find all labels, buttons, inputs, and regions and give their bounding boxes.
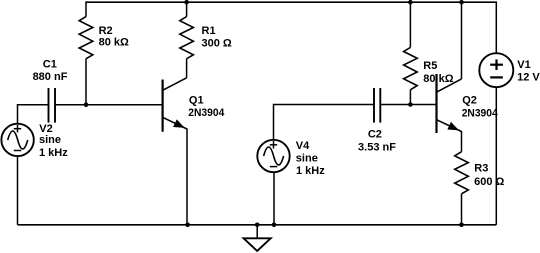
svg-text:V4: V4 <box>296 140 310 152</box>
node junction dot R1 top rail <box>184 0 189 5</box>
capacitor C1 <box>49 88 56 123</box>
wire V1 top lead <box>495 1 497 53</box>
voltage source V2 <box>1 124 33 156</box>
voltage source V1 <box>479 53 513 87</box>
svg-text:R5: R5 <box>423 60 437 72</box>
wire R2 top lead <box>85 1 87 16</box>
wire bottom rail <box>18 224 497 226</box>
node junction dot R2/base <box>84 102 89 107</box>
svg-text:600 Ω: 600 Ω <box>474 176 504 188</box>
wire Q2 collector lead <box>461 1 463 79</box>
wire Q1 emitter lead <box>186 129 188 225</box>
node junction dot R5/base <box>408 102 413 107</box>
svg-text:C1: C1 <box>43 59 57 71</box>
svg-text:3.53 nF: 3.53 nF <box>358 141 396 153</box>
resistor R2 <box>79 17 93 59</box>
svg-text:80 kΩ: 80 kΩ <box>99 37 129 49</box>
transistor Q2 <box>437 74 462 133</box>
wire C2 to Q2 base <box>380 104 436 106</box>
wire V2 bottom lead <box>17 156 19 225</box>
svg-text:300 Ω: 300 Ω <box>202 37 232 49</box>
svg-text:1 kHz: 1 kHz <box>296 165 325 177</box>
wire R1 bottom lead <box>186 59 188 78</box>
svg-text:2N3904: 2N3904 <box>462 107 499 119</box>
svg-text:12 V: 12 V <box>517 72 540 84</box>
wire R5 top lead <box>409 1 411 47</box>
svg-text:C2: C2 <box>368 129 382 141</box>
node junction dot ground <box>255 223 260 228</box>
wire R1 top lead <box>186 1 188 16</box>
transistor Q1 <box>163 78 187 132</box>
wire top rail <box>86 1 496 3</box>
svg-text:V1: V1 <box>517 59 530 71</box>
capacitor C2 <box>374 88 380 123</box>
wire R3 bottom lead <box>461 194 463 225</box>
node junction dot Q2 collector top rail <box>459 0 464 5</box>
node junction dot Q1 emitter bottom <box>185 223 190 228</box>
voltage source V4 <box>257 140 289 172</box>
resistor R1 <box>180 17 194 59</box>
wire C1 to Q1 base <box>55 104 163 106</box>
wire V1 bottom lead <box>495 87 497 225</box>
svg-text:80 kΩ: 80 kΩ <box>423 73 453 85</box>
svg-text:Q2: Q2 <box>462 95 477 107</box>
svg-text:R3: R3 <box>474 162 488 174</box>
ground <box>244 225 271 251</box>
wire R2 bottom lead <box>85 59 87 105</box>
wire Q2 emitter lead <box>461 131 463 152</box>
resistor R5 <box>404 47 418 89</box>
svg-text:R1: R1 <box>202 25 216 37</box>
wire V2 top to C1 <box>18 105 49 124</box>
svg-text:1 kHz: 1 kHz <box>39 147 68 159</box>
svg-text:Q1: Q1 <box>189 94 204 106</box>
wire V4 top to C2 <box>274 105 375 141</box>
svg-text:sine: sine <box>296 153 318 165</box>
svg-text:880 nF: 880 nF <box>33 71 68 83</box>
node junction dot R5 top rail <box>408 0 413 5</box>
svg-text:2N3904: 2N3904 <box>188 107 225 119</box>
wire V4 bottom lead <box>273 172 275 225</box>
wire R5 bottom lead <box>409 90 411 105</box>
node junction dot R3 bottom <box>459 223 464 228</box>
svg-text:sine: sine <box>39 134 61 146</box>
resistor R3 <box>455 152 469 194</box>
svg-text:R2: R2 <box>99 25 113 37</box>
node junction dot V4 bottom <box>272 223 277 228</box>
